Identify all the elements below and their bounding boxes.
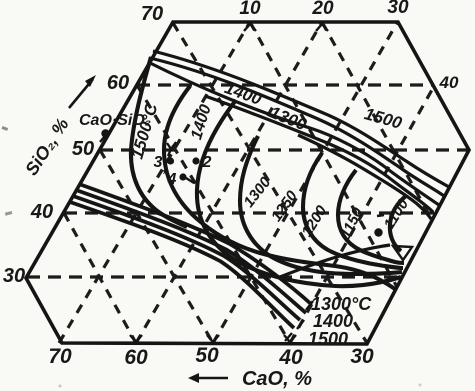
svg-text:1300: 1300	[240, 173, 274, 210]
svg-text:4: 4	[167, 171, 177, 188]
svg-text:40: 40	[30, 201, 53, 223]
svg-text:70: 70	[141, 3, 163, 25]
svg-text:SiO₂, %: SiO₂, %	[21, 114, 73, 178]
svg-text:10: 10	[239, 0, 261, 19]
svg-text:50: 50	[72, 138, 94, 160]
svg-text:20: 20	[311, 0, 334, 19]
svg-text:30: 30	[3, 265, 25, 287]
svg-text:50: 50	[195, 344, 219, 367]
svg-text:2: 2	[202, 154, 212, 171]
svg-text:60: 60	[107, 72, 129, 94]
svg-text:70: 70	[48, 345, 72, 368]
svg-text:1500: 1500	[308, 329, 348, 349]
svg-text:60: 60	[124, 346, 148, 369]
svg-text:1500: 1500	[362, 104, 404, 133]
svg-text:,: ,	[162, 160, 167, 175]
svg-text:40: 40	[278, 346, 303, 369]
svg-text:1400: 1400	[313, 311, 353, 331]
svg-text:1300: 1300	[267, 103, 310, 135]
svg-text:3: 3	[154, 154, 163, 171]
svg-text:CaO, %: CaO, %	[242, 368, 312, 390]
svg-text:30: 30	[387, 0, 409, 18]
svg-text:40: 40	[439, 73, 459, 92]
svg-text:30: 30	[350, 345, 374, 368]
svg-text:1250: 1250	[268, 187, 301, 225]
